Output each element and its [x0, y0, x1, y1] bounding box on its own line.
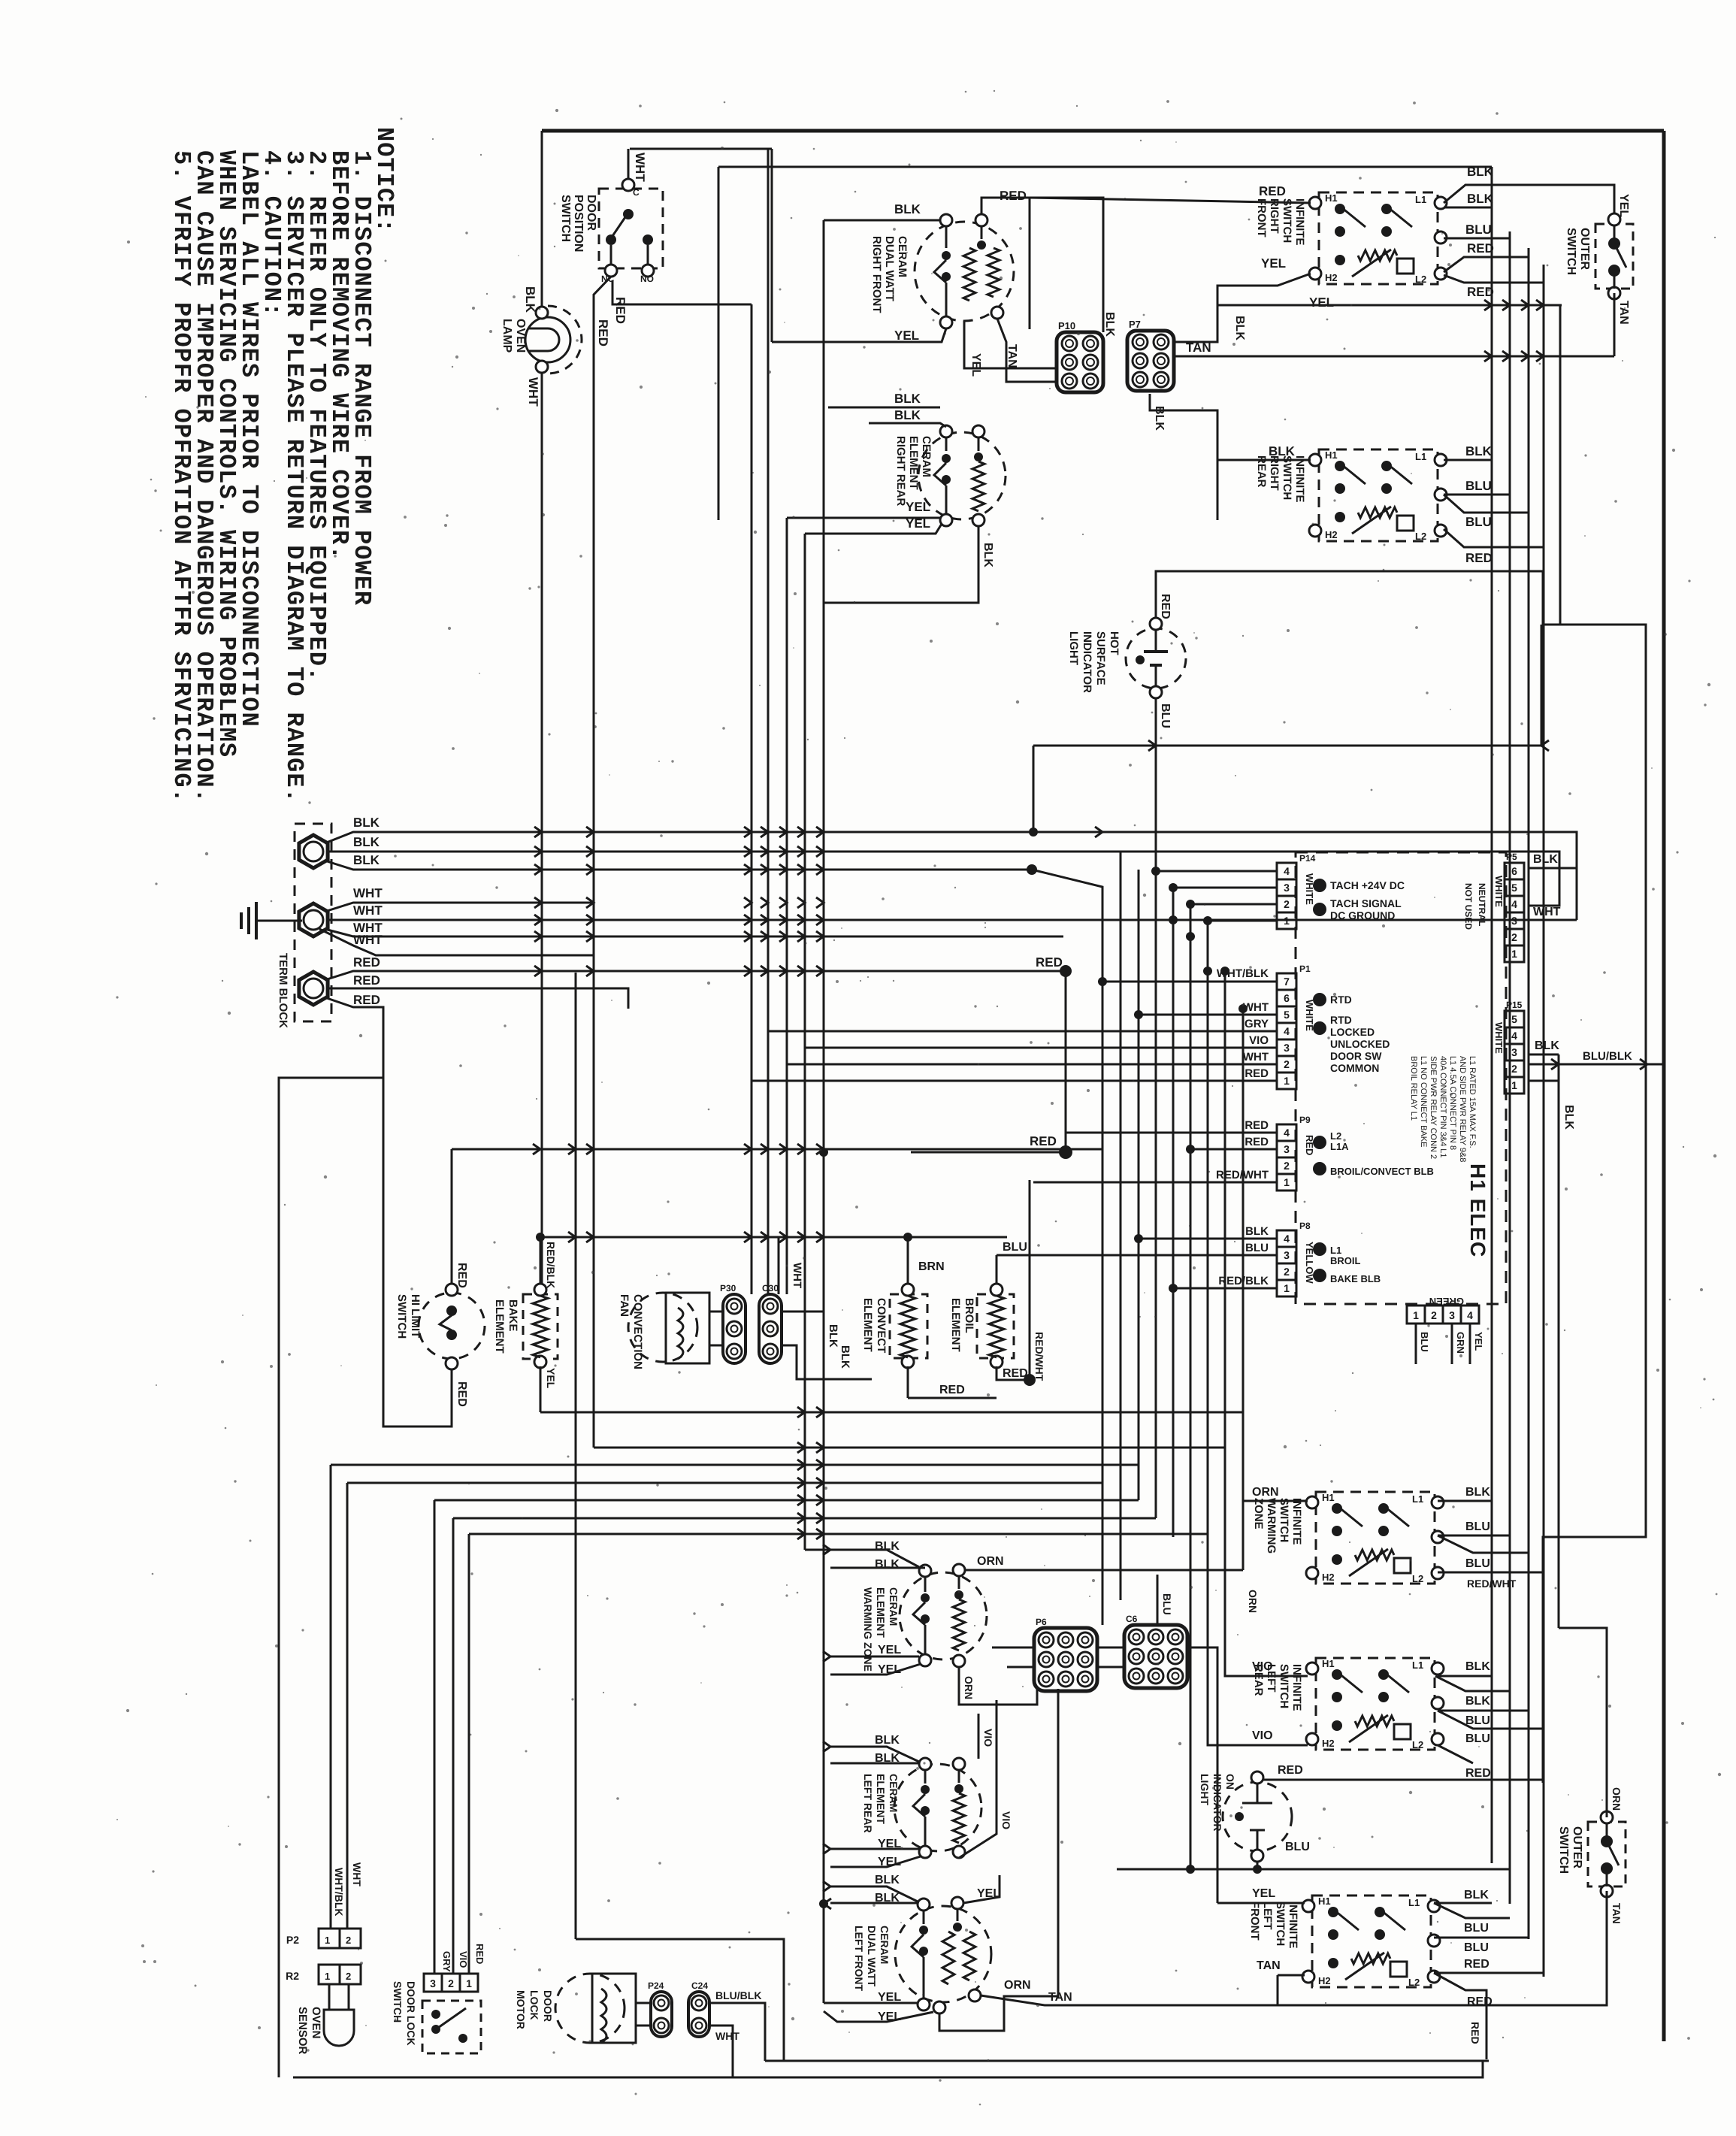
svg-text:4: 4: [1284, 1233, 1290, 1245]
hot surface indicator light: [1126, 628, 1186, 688]
wire BLK from P10 up: [1030, 198, 1103, 332]
switch hi limit: [419, 1293, 485, 1359]
connector P15: [1505, 1011, 1524, 1027]
svg-text:5: 5: [1511, 1013, 1517, 1025]
svg-text:RED: RED: [1465, 1767, 1491, 1780]
svg-text:2: 2: [1284, 898, 1290, 910]
wires between P6 C6: [1097, 1647, 1124, 1649]
wire RED to hi-limit loop: [383, 1078, 452, 1427]
wire long vert x2054: [1543, 265, 1545, 1977]
wire ON light BLU: [1263, 1855, 1428, 1856]
svg-text:P6: P6: [1036, 1617, 1047, 1627]
connector P30: [723, 1294, 746, 1363]
svg-text:BLK: BLK: [1467, 192, 1494, 206]
svg-text:BROIL/CONVECT BLB: BROIL/CONVECT BLB: [1330, 1166, 1434, 1177]
svg-text:WHITE: WHITE: [1493, 876, 1505, 907]
svg-text:BLK: BLK: [894, 392, 921, 406]
svg-text:L2: L2: [1412, 1739, 1423, 1750]
svg-text:BLK: BLK: [1103, 312, 1116, 337]
svg-text:BAKE: BAKE: [507, 1299, 519, 1332]
wire BLK left front 1: [830, 1886, 918, 1902]
svg-text:INFINITE: INFINITE: [1290, 1664, 1303, 1711]
svg-text:RED: RED: [455, 1263, 468, 1288]
wires right rear switch leads: [1217, 459, 1311, 461]
wire YEL right front: [772, 328, 946, 342]
wire WHT bus 3: [325, 929, 1063, 936]
svg-text:CERAM: CERAM: [879, 1926, 891, 1964]
svg-text:3: 3: [430, 1977, 436, 1989]
element ceram left rear: [894, 1764, 981, 1851]
svg-text:P10: P10: [1058, 320, 1075, 331]
wire top border: [542, 129, 1664, 133]
wire YEL feed to right front switch H2: [1217, 274, 1311, 305]
svg-text:BLK: BLK: [894, 408, 921, 422]
svg-text:RED: RED: [474, 1944, 485, 1964]
connector P1: [1277, 973, 1296, 990]
wire long vert x2034: [1528, 248, 1530, 1939]
wire BLK P5 pin6 stub: [1529, 867, 1577, 870]
wire long vert x1985: [1491, 167, 1493, 1863]
terminal RED: [299, 972, 328, 1005]
svg-text:YEL: YEL: [906, 500, 930, 514]
element convect: [890, 1294, 927, 1358]
wire right border: [1662, 131, 1666, 2041]
wire fan wht top: [594, 1270, 688, 1293]
svg-text:FAN: FAN: [618, 1294, 631, 1317]
connector C30: [759, 1294, 782, 1363]
svg-text:P30: P30: [720, 1283, 736, 1293]
light on indicator: [1223, 1782, 1292, 1851]
wire vert x2076 upper: [1559, 305, 1562, 625]
svg-text:HI LIMIT: HI LIMIT: [409, 1294, 422, 1338]
svg-text:RED/WHT: RED/WHT: [1216, 1169, 1269, 1181]
svg-text:P5: P5: [1506, 852, 1517, 862]
svg-text:YEL: YEL: [545, 1368, 557, 1389]
svg-text:SWITCH: SWITCH: [559, 195, 572, 242]
svg-text:RED/WHT: RED/WHT: [1033, 1332, 1045, 1381]
svg-text:RED: RED: [1467, 285, 1494, 299]
svg-text:RED: RED: [1159, 594, 1172, 619]
svg-text:RTD: RTD: [1330, 994, 1352, 1006]
svg-text:BLK: BLK: [1464, 1889, 1489, 1902]
fan convection: [628, 1293, 697, 1362]
svg-text:BLK: BLK: [1562, 1105, 1575, 1130]
svg-text:RED: RED: [1245, 1136, 1269, 1148]
svg-text:ORN: ORN: [977, 1555, 1004, 1568]
wire left drop to bottom: [279, 1078, 383, 2077]
wire v603 to door lock: [452, 1518, 455, 1974]
svg-text:NOT USED: NOT USED: [1463, 883, 1474, 930]
svg-text:DOOR: DOOR: [542, 1990, 554, 2022]
wire hot surface RED up and right: [1156, 571, 1646, 1783]
switch outer (top): [1595, 224, 1633, 289]
svg-text:YEL: YEL: [1617, 194, 1630, 217]
svg-text:ORN: ORN: [963, 1676, 975, 1699]
svg-text:YEL: YEL: [1473, 1332, 1484, 1351]
svg-text:RED: RED: [1245, 1067, 1269, 1080]
svg-text:40A CONNECT PIN 3&4 L1: 40A CONNECT PIN 3&4 L1: [1438, 1056, 1447, 1158]
connector P14: [1277, 863, 1296, 879]
wire door switch RED leads: [594, 277, 611, 1448]
svg-text:YEL: YEL: [878, 1991, 901, 2004]
svg-text:4: 4: [1511, 1030, 1517, 1042]
svg-text:ZONE: ZONE: [1252, 1498, 1265, 1529]
svg-text:WHT: WHT: [1243, 1051, 1269, 1063]
wire v1515: [1138, 870, 1140, 1500]
wires warming switch right side: [1438, 1500, 1492, 1502]
svg-text:3: 3: [1284, 1143, 1290, 1155]
wire v624 to door lock: [468, 1534, 470, 1974]
svg-text:POSITION: POSITION: [572, 195, 585, 252]
connector P10 2x3: [1057, 332, 1103, 392]
svg-text:4: 4: [1284, 1025, 1290, 1037]
wire y1949 bus: [331, 1464, 1139, 1466]
svg-text:TAN: TAN: [1257, 1959, 1281, 1972]
svg-text:RED: RED: [1000, 189, 1027, 203]
wire door switch feed: [630, 148, 772, 150]
svg-text:H1: H1: [1318, 1895, 1331, 1907]
svg-text:BLK: BLK: [839, 1345, 851, 1369]
svg-text:2: 2: [1511, 931, 1517, 943]
svg-text:RED: RED: [1467, 1995, 1493, 2008]
svg-text:DOOR: DOOR: [585, 195, 597, 231]
wire v1630: [1224, 971, 1226, 1448]
wire bus y222: [718, 166, 1492, 168]
svg-text:RED: RED: [1030, 1134, 1057, 1148]
wire VIO left rear H1: [1225, 1448, 1308, 1676]
svg-text:BROIL RELAY L1: BROIL RELAY L1: [1409, 1056, 1418, 1121]
svg-text:2: 2: [1284, 1058, 1290, 1070]
svg-text:DOOR SW: DOOR SW: [1330, 1050, 1382, 1062]
svg-text:L1 4.5A CONNECT PIN 8: L1 4.5A CONNECT PIN 8: [1448, 1056, 1457, 1150]
svg-text:BLU/BLK: BLU/BLK: [1583, 1050, 1632, 1063]
wire YEL left rear 2: [830, 1856, 921, 1867]
svg-text:RED/BLK: RED/BLK: [545, 1242, 557, 1288]
svg-text:BLK: BLK: [827, 1324, 839, 1348]
svg-text:CERAM: CERAM: [896, 236, 909, 277]
svg-text:LIGHT: LIGHT: [1067, 631, 1080, 665]
svg-text:CONVECTION: CONVECTION: [631, 1294, 644, 1369]
wire convect bottom: [907, 1366, 909, 1398]
svg-text:AND SIDE PWR RELAY 9&8: AND SIDE PWR RELAY 9&8: [1458, 1056, 1467, 1162]
svg-text:RED: RED: [1259, 184, 1286, 198]
element broil: [977, 1294, 1014, 1358]
svg-text:WHT: WHT: [633, 153, 647, 182]
wire YEL verticals down-left: [786, 518, 788, 1294]
svg-text:BLK: BLK: [1465, 1486, 1490, 1499]
svg-text:R2: R2: [286, 1970, 299, 1982]
element ceram dual watt left front: [895, 1906, 991, 2002]
wire convect top: [907, 1237, 909, 1284]
svg-text:L1 RATED 15A MAX F.S.: L1 RATED 15A MAX F.S.: [1468, 1056, 1477, 1148]
wire y1926 bus: [594, 1447, 1225, 1449]
svg-text:RED: RED: [1245, 1119, 1269, 1132]
svg-text:OVEN: OVEN: [310, 2007, 322, 2039]
svg-text:SWITCH: SWITCH: [1278, 1664, 1290, 1708]
svg-text:L1: L1: [1415, 451, 1426, 462]
svg-text:INFINITE: INFINITE: [1287, 1902, 1299, 1949]
svg-text:BLU: BLU: [1465, 479, 1492, 493]
svg-text:BLU: BLU: [1464, 1922, 1489, 1935]
svg-text:LOCKED: LOCKED: [1330, 1026, 1375, 1038]
svg-text:YEL: YEL: [969, 353, 982, 377]
svg-text:RED: RED: [455, 1381, 468, 1407]
svg-text:P14: P14: [1299, 853, 1316, 864]
svg-text:BLK: BLK: [1465, 444, 1493, 458]
svg-text:MOTOR: MOTOR: [515, 1990, 527, 2029]
svg-text:VIO: VIO: [458, 1951, 469, 1968]
svg-text:OUTER: OUTER: [1578, 228, 1591, 270]
svg-text:BLK: BLK: [1533, 853, 1558, 866]
svg-text:RED: RED: [1036, 955, 1063, 970]
svg-text:3: 3: [1511, 915, 1517, 927]
wire v1538: [1155, 746, 1157, 1518]
svg-text:UNLOCKED: UNLOCKED: [1330, 1038, 1390, 1050]
svg-text:TERM BLOCK: TERM BLOCK: [277, 953, 289, 1028]
sensor oven sensor bulb: [324, 2010, 354, 2046]
svg-text:C24: C24: [691, 1980, 708, 1991]
wire ORN to warming switch: [1243, 1412, 1308, 1501]
svg-text:LEFT REAR: LEFT REAR: [862, 1774, 874, 1833]
wire YEL warming 1: [830, 1656, 919, 1658]
switch infinite warming zone: [1316, 1492, 1435, 1584]
svg-text:H1: H1: [1322, 1658, 1335, 1669]
svg-text:5. VFRIFY PROPFR OPFRATION AFT: 5. VFRIFY PROPFR OPFRATION AFTFR SFRVICI…: [168, 150, 195, 803]
svg-text:1: 1: [1511, 1079, 1517, 1091]
svg-text:YEL: YEL: [1261, 256, 1286, 271]
svg-text:TACH +24V DC: TACH +24V DC: [1330, 879, 1405, 891]
svg-text:L2: L2: [1415, 274, 1426, 285]
svg-text:VIO: VIO: [982, 1729, 994, 1747]
svg-text:BLU: BLU: [1159, 703, 1172, 728]
wire WHT bus 1: [325, 903, 594, 912]
wire YEL left front 1: [824, 2002, 918, 2004]
svg-text:RED: RED: [596, 319, 610, 346]
svg-text:1: 1: [466, 1977, 472, 1989]
svg-text:P1: P1: [1299, 964, 1311, 974]
svg-text:RED: RED: [353, 955, 380, 970]
wire bake bottom: [540, 1366, 542, 1412]
svg-text:SWITCH: SWITCH: [1278, 1498, 1290, 1542]
wire BLK P5 pin6: [1529, 867, 1577, 870]
wires left front switch: [1243, 1570, 1305, 1903]
svg-text:BLK: BLK: [1467, 165, 1494, 179]
wire left border lower: [541, 370, 543, 1291]
svg-text:VIO: VIO: [1252, 1729, 1273, 1742]
svg-text:H2: H2: [1325, 272, 1338, 283]
wire bus y1529: [452, 1148, 1102, 1151]
svg-text:BLU: BLU: [1465, 222, 1492, 237]
svg-text:BLK: BLK: [981, 543, 994, 567]
svg-text:BLU: BLU: [1465, 1520, 1490, 1533]
svg-text:1: 1: [1284, 1282, 1290, 1294]
svg-text:BLK: BLK: [353, 853, 380, 867]
svg-text:3: 3: [1284, 1249, 1290, 1261]
svg-text:OUTER: OUTER: [1571, 1826, 1583, 1868]
svg-text:C6: C6: [1126, 1614, 1138, 1624]
connector P24: [651, 1992, 672, 2037]
svg-text:ELEMENT: ELEMENT: [861, 1298, 874, 1352]
wire bus y2487: [1117, 1868, 1510, 1871]
wire ON light RED: [1257, 1759, 1312, 1771]
svg-text:1: 1: [325, 1971, 330, 1982]
svg-text:3: 3: [1284, 882, 1290, 894]
svg-text:INFINITE: INFINITE: [1293, 455, 1306, 503]
svg-text:H1 ELEC: H1 ELEC: [1466, 1163, 1490, 1257]
svg-text:L1: L1: [1412, 1493, 1423, 1505]
wire BLK right rear bottom: [824, 526, 978, 603]
svg-text:H1: H1: [1322, 1492, 1335, 1503]
svg-text:BRN: BRN: [918, 1260, 945, 1273]
svg-text:BLK: BLK: [1245, 1225, 1269, 1238]
svg-text:NO: NO: [640, 274, 654, 284]
svg-text:VIO: VIO: [1249, 1034, 1269, 1047]
svg-text:C30: C30: [762, 1283, 779, 1293]
wire RED right front: [981, 198, 1030, 329]
switch outer bottom: [1588, 1822, 1626, 1886]
svg-text:ELEMENT: ELEMENT: [875, 1774, 887, 1824]
svg-text:H1: H1: [1325, 449, 1338, 461]
wire y1996 bus: [434, 1499, 1139, 1502]
switch infinite right front: [1319, 192, 1438, 284]
wires left rear switch right side: [1438, 1675, 1492, 1678]
svg-text:SWITCH: SWITCH: [392, 1981, 404, 2023]
svg-text:SURFACE: SURFACE: [1094, 631, 1107, 685]
wire BLK down from P7: [1150, 394, 1217, 520]
terminal block TERM BLOCK: [295, 824, 331, 1021]
svg-text:L2: L2: [1415, 531, 1426, 542]
svg-text:H2: H2: [1325, 529, 1338, 540]
wire v1561: [1172, 888, 1175, 1537]
svg-text:TAN: TAN: [1617, 301, 1630, 325]
switch infinite left front: [1312, 1895, 1431, 1987]
svg-text:BLU: BLU: [1245, 1242, 1269, 1254]
svg-text:SIDE PWR RELAY CONN 2: SIDE PWR RELAY CONN 2: [1429, 1056, 1438, 1159]
svg-text:BLK: BLK: [353, 815, 380, 830]
wire WHT from C24: [709, 2026, 733, 2077]
svg-text:LOCK: LOCK: [528, 1990, 540, 2020]
junction arrows: [823, 1545, 830, 1555]
svg-text:SWITCH: SWITCH: [1281, 455, 1293, 500]
wire VIO left rear H2: [1208, 1534, 1308, 1745]
svg-text:RED: RED: [1304, 1135, 1315, 1155]
wire y1879 bus: [540, 1411, 1243, 1414]
svg-text:LEFT FRONT: LEFT FRONT: [853, 1926, 865, 1992]
svg-text:ORN: ORN: [1004, 1979, 1031, 1992]
svg-text:RTD: RTD: [1330, 1014, 1352, 1026]
svg-text:YEL: YEL: [1252, 1887, 1275, 1900]
wires left front switch right: [1434, 1902, 1492, 1905]
svg-text:VIO: VIO: [1000, 1811, 1012, 1829]
svg-text:ELEMENT: ELEMENT: [493, 1299, 506, 1354]
wire RED bus 2: [329, 988, 628, 1009]
switch door lock: [424, 1974, 442, 1992]
svg-text:WARMING: WARMING: [1265, 1498, 1278, 1554]
svg-text:BLK: BLK: [1535, 1039, 1559, 1052]
svg-text:3: 3: [1284, 1042, 1290, 1054]
svg-text:4: 4: [1284, 1127, 1290, 1139]
svg-text:ORN: ORN: [1247, 1590, 1259, 1613]
svg-text:L2: L2: [1408, 1977, 1420, 1988]
wire bus y1646: [540, 1236, 1007, 1239]
svg-text:WHT: WHT: [353, 886, 383, 900]
wire ORN warming bottom: [959, 1667, 1037, 1705]
svg-text:WHITE: WHITE: [1493, 1022, 1505, 1054]
junction dots: [1151, 867, 1160, 876]
wire ORN left front: [939, 1689, 1058, 2031]
svg-text:3: 3: [1449, 1309, 1455, 1321]
svg-text:FRONT: FRONT: [1248, 1902, 1261, 1941]
connector P7 2x3: [1127, 331, 1174, 391]
svg-text:P15: P15: [1506, 1000, 1523, 1010]
svg-text:RED: RED: [1464, 1958, 1490, 1971]
svg-text:3: 3: [1511, 1046, 1517, 1058]
svg-text:2: 2: [1511, 1063, 1517, 1075]
svg-text:WHT: WHT: [715, 2030, 739, 2042]
svg-text:2: 2: [448, 1977, 454, 1989]
svg-text:WHT: WHT: [351, 1862, 363, 1886]
svg-text:GRY: GRY: [1245, 1018, 1269, 1030]
wire v578 to door lock: [434, 1500, 436, 1974]
svg-text:CONVECT: CONVECT: [875, 1298, 888, 1353]
svg-text:L1: L1: [1415, 194, 1426, 205]
wire BLK vert from P7: [1150, 305, 1231, 331]
wire vert x956: [718, 167, 720, 520]
wire P15 pin1: [1529, 1080, 1559, 1082]
svg-text:RIGHT: RIGHT: [1268, 198, 1281, 234]
wire v440 to P2: [330, 1465, 332, 1929]
svg-text:RED: RED: [1278, 1764, 1303, 1777]
svg-text:BLU: BLU: [1465, 1714, 1490, 1727]
wire long vert x2009: [1509, 231, 1511, 1904]
svg-text:6: 6: [1284, 992, 1290, 1004]
wire bake top: [540, 1237, 542, 1284]
motor door lock: [555, 1974, 625, 2043]
svg-text:BLU: BLU: [1465, 1732, 1490, 1745]
wire BLK warming 1: [805, 1550, 919, 1567]
wire v1584: [1190, 904, 1192, 1869]
svg-text:BLU: BLU: [1003, 1241, 1027, 1254]
svg-text:P8: P8: [1299, 1221, 1311, 1231]
svg-text:1: 1: [1413, 1309, 1419, 1321]
wire RED door sw right: [612, 280, 752, 304]
wire vert x2074 lower: [1558, 1054, 1560, 1628]
element ceram dual watt right front: [915, 222, 1014, 321]
svg-text:L1: L1: [1412, 1659, 1423, 1671]
svg-text:7: 7: [1284, 976, 1290, 988]
svg-text:TAN: TAN: [1006, 344, 1018, 368]
connector P8: [1277, 1230, 1296, 1247]
wire BLU/BLK from C24: [709, 2003, 765, 2061]
wire VIO left rear top: [978, 1714, 980, 1759]
svg-text:WHT: WHT: [1533, 906, 1561, 918]
svg-text:INFINITE: INFINITE: [1293, 198, 1306, 246]
svg-text:RED: RED: [353, 973, 380, 988]
wire BLK bus 3: [325, 861, 1032, 870]
svg-text:BLU: BLU: [1161, 1593, 1173, 1615]
wire BLK left rear 1: [830, 1747, 919, 1762]
svg-text:LIGHT: LIGHT: [1199, 1774, 1211, 1805]
wires P14 stubs: [1156, 870, 1277, 873]
svg-text:DOOR LOCK: DOOR LOCK: [405, 1981, 417, 2046]
wire RED bus 1: [325, 971, 1066, 980]
wire BLK left front 2: [830, 1902, 918, 1905]
svg-text:BLK: BLK: [1465, 1660, 1490, 1673]
svg-text:RIGHT FRONT: RIGHT FRONT: [870, 236, 883, 313]
svg-text:INFINITE: INFINITE: [1290, 1498, 1303, 1545]
svg-text:WHT: WHT: [526, 377, 540, 407]
ground symbol: [256, 920, 302, 922]
